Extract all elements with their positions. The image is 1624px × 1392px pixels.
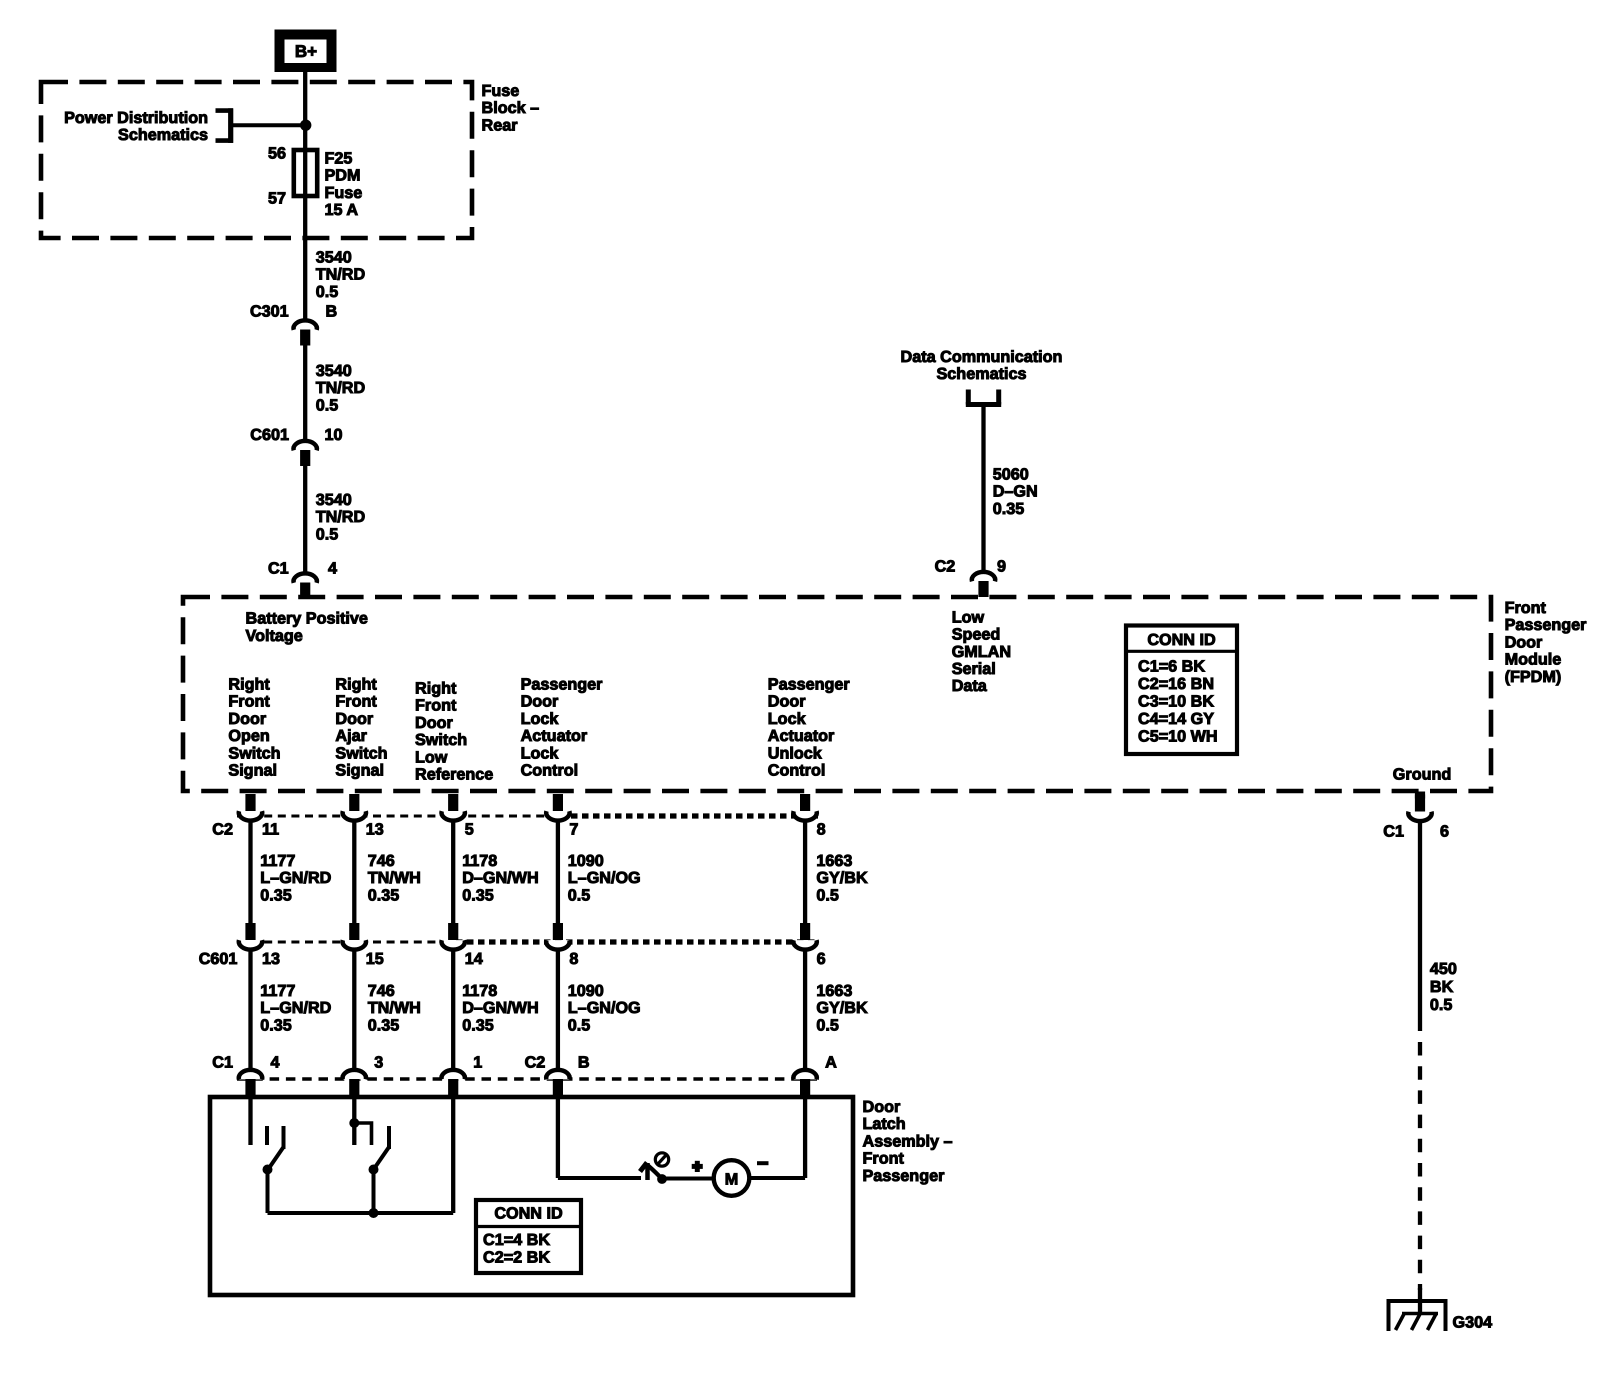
- svg-text:Door: Door: [521, 693, 559, 711]
- label Passenger Door Lock Actuator Lock Control: [521, 676, 604, 780]
- svg-text:746: 746: [368, 982, 395, 1000]
- power terminal B+: [275, 30, 336, 72]
- svg-text:Voltage: Voltage: [246, 627, 303, 645]
- label wire 1090 L-GN/OG upper: [568, 852, 641, 904]
- wire 1177 L-GN/RD upper segment (column 1): [248, 820, 252, 925]
- svg-text:C601: C601: [250, 426, 289, 444]
- rail junction: [369, 1209, 378, 1218]
- svg-text:C4=14 GY: C4=14 GY: [1138, 710, 1214, 728]
- connector C2 pin 9 (FPDM): [935, 557, 1006, 596]
- CONN ID table (FPDM): [1126, 626, 1237, 755]
- connector C601 pin 10: [250, 426, 342, 466]
- wire motor to unlock control: [750, 1176, 805, 1180]
- svg-text:Right: Right: [415, 680, 457, 698]
- svg-text:Lock: Lock: [768, 710, 807, 728]
- svg-text:Right: Right: [228, 676, 270, 694]
- connector row C2 dashed line: [237, 815, 818, 818]
- svg-text:56: 56: [268, 145, 286, 163]
- svg-text:Schematics: Schematics: [118, 126, 208, 144]
- svg-text:15 A: 15 A: [325, 201, 359, 219]
- svg-text:Passenger: Passenger: [768, 676, 851, 694]
- svg-text:C3=10 BK: C3=10 BK: [1138, 692, 1214, 710]
- svg-text:0.35: 0.35: [462, 886, 494, 904]
- wire into ground: [1418, 1288, 1422, 1313]
- Door Latch Assembly box: [210, 1097, 853, 1295]
- svg-text:C2: C2: [935, 557, 956, 575]
- svg-text:Signal: Signal: [228, 762, 277, 780]
- svg-text:B+: B+: [295, 42, 317, 61]
- Front Passenger Door Module (FPDM) box: [183, 597, 1491, 791]
- svg-text:Lock: Lock: [521, 710, 560, 728]
- svg-text:Rear: Rear: [482, 116, 519, 134]
- svg-text:Actuator: Actuator: [768, 727, 835, 745]
- svg-text:15: 15: [366, 950, 384, 968]
- svg-text:BK: BK: [1430, 978, 1454, 996]
- label wire 746 TN/WH upper: [368, 852, 421, 904]
- label Battery Positive Voltage: [246, 610, 368, 645]
- connector C2 label: [212, 820, 233, 838]
- wire C301 to C601: [303, 344, 307, 443]
- svg-text:0.5: 0.5: [568, 1016, 591, 1034]
- svg-text:0.5: 0.5: [816, 886, 839, 904]
- svg-text:14: 14: [465, 950, 483, 968]
- svg-text:C301: C301: [250, 303, 289, 321]
- door ajar switch pivot: [369, 1165, 378, 1174]
- svg-text:TN/WH: TN/WH: [368, 999, 421, 1017]
- svg-text:0.5: 0.5: [316, 396, 339, 414]
- svg-text:Front: Front: [228, 693, 270, 711]
- svg-text:5060: 5060: [993, 466, 1029, 484]
- door open switch contact: [282, 1126, 286, 1149]
- svg-text:5: 5: [465, 820, 474, 838]
- wire open switch to rail: [266, 1170, 270, 1214]
- svg-text:0.35: 0.35: [260, 1016, 292, 1034]
- svg-text:Speed: Speed: [952, 626, 1001, 644]
- svg-text:L–GN/OG: L–GN/OG: [568, 999, 641, 1017]
- svg-text:GMLAN: GMLAN: [952, 643, 1011, 661]
- svg-text:10: 10: [325, 426, 343, 444]
- svg-text:57: 57: [268, 189, 286, 207]
- junction on B+ feed: [301, 120, 311, 130]
- connector C601 pin 8 (column 4): [546, 924, 578, 969]
- connector row C601 dashed line: [237, 941, 818, 944]
- lock switch pivot: [658, 1175, 667, 1184]
- svg-text:Fuse: Fuse: [482, 82, 520, 100]
- svg-text:C2=16 BN: C2=16 BN: [1138, 675, 1214, 693]
- door ajar switch blade: [374, 1147, 390, 1170]
- lock actuator icon: [655, 1153, 668, 1166]
- Data Communication Schematics reference: [901, 348, 1063, 405]
- wire ajar switch to rail: [372, 1170, 376, 1214]
- svg-text:Power Distribution: Power Distribution: [64, 109, 208, 127]
- wire 1090 L-GN/OG lower segment (column 4): [556, 949, 560, 1072]
- connector C601 pin 15 (column 2): [343, 924, 384, 969]
- svg-text:Front: Front: [863, 1150, 905, 1168]
- label wire 1090 L-GN/OG lower: [568, 982, 641, 1034]
- wire unlock control column: [803, 1094, 807, 1178]
- label wire 3540 TN/RD 0.5 (segment 3): [316, 491, 366, 543]
- svg-text:0.5: 0.5: [1430, 996, 1453, 1014]
- door open switch pivot: [263, 1165, 272, 1174]
- connector C601 pin 13 (column 1): [239, 924, 280, 969]
- svg-text:0.5: 0.5: [316, 283, 339, 301]
- svg-text:3: 3: [374, 1054, 383, 1072]
- svg-text:1178: 1178: [462, 982, 497, 1000]
- svg-text:0.35: 0.35: [993, 500, 1025, 518]
- label wire 1663 GY/BK lower: [816, 982, 868, 1034]
- wire fuse to C301: [303, 196, 307, 322]
- label wire 1177 L-GN/RD lower: [260, 982, 331, 1034]
- svg-text:C2: C2: [212, 820, 233, 838]
- svg-text:Fuse: Fuse: [325, 184, 363, 202]
- label Right Front Door Ajar Switch Signal: [335, 676, 387, 780]
- wire into door open switch: [248, 1094, 252, 1145]
- svg-text:Switch: Switch: [415, 731, 467, 749]
- svg-text:1178: 1178: [462, 852, 497, 870]
- svg-text:0.5: 0.5: [568, 886, 591, 904]
- svg-text:Passenger: Passenger: [863, 1167, 946, 1185]
- connector latch pin 1 (column 3): [442, 1054, 483, 1095]
- svg-text:L–GN/RD: L–GN/RD: [260, 869, 331, 887]
- label wire 3540 TN/RD 0.5 (segment 1): [316, 249, 366, 301]
- svg-text:13: 13: [366, 820, 384, 838]
- svg-text:1177: 1177: [260, 982, 295, 1000]
- svg-text:Schematics: Schematics: [937, 365, 1027, 383]
- svg-text:F25: F25: [325, 150, 353, 168]
- wire 1663 GY/BK upper segment (column 5): [803, 820, 807, 925]
- svg-text:0.35: 0.35: [368, 1016, 400, 1034]
- connector C1 pin 6 (ground): [1383, 792, 1449, 841]
- connector C1 pin 4 (FPDM): [268, 560, 337, 599]
- svg-text:Assembly –: Assembly –: [863, 1132, 953, 1150]
- svg-text:GY/BK: GY/BK: [816, 869, 868, 887]
- connector latch pin B (column 4): [546, 1054, 589, 1095]
- svg-text:Door: Door: [768, 693, 806, 711]
- svg-text:CONN ID: CONN ID: [1147, 631, 1216, 649]
- svg-text:Switch: Switch: [335, 744, 387, 762]
- svg-text:TN/RD: TN/RD: [316, 508, 366, 526]
- svg-text:PDM: PDM: [325, 167, 361, 185]
- svg-text:Door: Door: [1505, 633, 1543, 651]
- wire 1090 L-GN/OG upper segment (column 4): [556, 820, 560, 925]
- label Right Front Door Open Switch Signal: [228, 676, 280, 780]
- svg-text:GY/BK: GY/BK: [816, 999, 868, 1017]
- svg-text:CONN ID: CONN ID: [494, 1205, 563, 1223]
- connector C2 pin 11 (column 1): [239, 795, 279, 839]
- label wire 450 BK 0.5: [1430, 960, 1457, 1014]
- door open switch blade: [268, 1147, 284, 1170]
- switch common rail: [268, 1211, 454, 1215]
- svg-text:Open: Open: [228, 727, 269, 745]
- svg-text:TN/RD: TN/RD: [316, 266, 366, 284]
- svg-text:Door: Door: [863, 1098, 901, 1116]
- wire from Power Distribution tap: [233, 123, 305, 127]
- wire GMLAN serial data: [981, 405, 985, 575]
- label wire 3540 TN/RD 0.5 (segment 2): [316, 362, 366, 414]
- svg-text:Latch: Latch: [863, 1115, 906, 1133]
- svg-text:Front: Front: [415, 697, 457, 715]
- label wire 1663 GY/BK upper: [816, 852, 868, 904]
- svg-text:3540: 3540: [316, 491, 352, 509]
- svg-text:0.35: 0.35: [368, 886, 400, 904]
- label Fuse Block - Rear: [482, 82, 540, 134]
- svg-text:6: 6: [817, 950, 826, 968]
- svg-text:Module: Module: [1505, 651, 1562, 669]
- connector C2 pin 8 (column 5): [793, 795, 825, 839]
- wire B+ feed into fuse block: [303, 72, 307, 199]
- wire C601 to C1: [303, 465, 307, 576]
- svg-text:Door: Door: [415, 714, 453, 732]
- svg-text:Data Communication: Data Communication: [901, 348, 1063, 366]
- svg-text:0.35: 0.35: [462, 1016, 494, 1034]
- connector C2 pin 13 (column 2): [343, 795, 384, 839]
- door ajar switch hook: [354, 1123, 371, 1145]
- connector C601 pin 14 (column 3): [442, 924, 483, 969]
- wire lock switch to motor: [663, 1177, 714, 1181]
- svg-text:M: M: [725, 1171, 738, 1189]
- Power Distribution Schematics reference: [64, 108, 233, 144]
- svg-text:8: 8: [569, 950, 578, 968]
- wire 746 TN/WH upper segment (column 2): [352, 820, 356, 925]
- svg-text:Door: Door: [228, 710, 266, 728]
- svg-text:13: 13: [262, 950, 280, 968]
- svg-text:C2=2 BK: C2=2 BK: [483, 1248, 550, 1266]
- lock switch blade: [640, 1163, 662, 1181]
- svg-text:Signal: Signal: [335, 762, 384, 780]
- label Door Latch Assembly - Front Passenger: [863, 1098, 953, 1185]
- svg-text:C1: C1: [212, 1054, 233, 1072]
- door ajar switch tap junction: [350, 1119, 359, 1128]
- svg-text:Reference: Reference: [415, 766, 493, 784]
- connector C2 latch label: [525, 1054, 546, 1072]
- connector C601 label: [199, 950, 238, 968]
- connector C601 pin 6 (column 5): [793, 924, 825, 969]
- svg-text:D–GN/WH: D–GN/WH: [462, 869, 538, 887]
- svg-text:4: 4: [328, 560, 337, 578]
- svg-text:Front: Front: [1505, 599, 1547, 617]
- svg-text:Control: Control: [521, 762, 579, 780]
- svg-text:C601: C601: [199, 950, 238, 968]
- svg-text:Passenger: Passenger: [1505, 616, 1588, 634]
- svg-text:Control: Control: [768, 762, 826, 780]
- wire 450 BK upper segment: [1418, 820, 1422, 1031]
- svg-text:Right: Right: [335, 676, 377, 694]
- svg-text:C1=4 BK: C1=4 BK: [483, 1231, 550, 1249]
- label fuse F25 PDM Fuse 15 A: [325, 150, 363, 220]
- connector C2 pin 7 (column 4): [546, 795, 578, 839]
- connector C2 pin 5 (column 3): [442, 795, 474, 839]
- svg-text:0.5: 0.5: [816, 1016, 839, 1034]
- svg-text:1090: 1090: [568, 982, 604, 1000]
- svg-text:8: 8: [817, 820, 826, 838]
- svg-text:Switch: Switch: [228, 744, 280, 762]
- svg-text:Front: Front: [335, 693, 377, 711]
- label Right Front Door Switch Low Reference: [415, 680, 493, 784]
- svg-text:Lock: Lock: [521, 744, 560, 762]
- wire into door ajar switch: [352, 1094, 356, 1145]
- svg-text:11: 11: [262, 820, 279, 838]
- svg-text:0.35: 0.35: [260, 886, 292, 904]
- label wire 746 TN/WH lower: [368, 982, 421, 1034]
- svg-text:1663: 1663: [816, 852, 852, 870]
- svg-text:450: 450: [1430, 960, 1457, 978]
- connector latch pin A (column 5): [793, 1054, 837, 1095]
- svg-text:Low: Low: [952, 608, 985, 626]
- svg-text:746: 746: [368, 852, 395, 870]
- wire 746 TN/WH lower segment (column 2): [352, 949, 356, 1072]
- connector row C1/C2 latch dashed line: [237, 1077, 818, 1080]
- label wire 1178 D-GN/WH lower: [462, 982, 538, 1034]
- svg-text:Data: Data: [952, 677, 988, 695]
- svg-text:Unlock: Unlock: [768, 744, 823, 762]
- svg-text:1090: 1090: [568, 852, 604, 870]
- svg-text:3540: 3540: [316, 362, 352, 380]
- svg-text:B: B: [578, 1054, 590, 1072]
- svg-text:Passenger: Passenger: [521, 676, 604, 694]
- svg-text:Door: Door: [335, 710, 373, 728]
- motor negative sign: [757, 1161, 769, 1165]
- label wire 1178 D-GN/WH upper: [462, 852, 538, 904]
- label Ground: [1393, 766, 1451, 784]
- svg-text:1: 1: [473, 1054, 482, 1072]
- connector C301 pin B: [250, 303, 337, 346]
- svg-text:D–GN/WH: D–GN/WH: [462, 999, 538, 1017]
- svg-text:C1=6 BK: C1=6 BK: [1138, 658, 1205, 676]
- wire lock control into latch: [556, 1094, 560, 1178]
- label wire 1177 L-GN/RD upper: [260, 852, 331, 904]
- door open switch fixed stub: [265, 1126, 269, 1145]
- svg-text:3540: 3540: [316, 249, 352, 267]
- wire 1178 D-GN/WH upper segment (column 3): [451, 820, 455, 925]
- connector latch pin 4 (column 1): [239, 1054, 280, 1095]
- svg-text:B: B: [326, 303, 338, 321]
- svg-text:(FPDM): (FPDM): [1505, 668, 1562, 686]
- svg-text:Ajar: Ajar: [335, 727, 367, 745]
- connector latch pin 3 (column 2): [343, 1054, 384, 1095]
- svg-text:6: 6: [1440, 823, 1449, 841]
- svg-text:TN/RD: TN/RD: [316, 379, 366, 397]
- svg-text:Block –: Block –: [482, 99, 540, 117]
- svg-text:1663: 1663: [816, 982, 852, 1000]
- svg-text:A: A: [825, 1054, 837, 1072]
- label Front Passenger Door Module (FPDM): [1505, 599, 1588, 686]
- svg-text:Actuator: Actuator: [521, 727, 588, 745]
- connector C1 latch label: [212, 1054, 233, 1072]
- door ajar switch contact: [387, 1126, 391, 1149]
- svg-text:Serial: Serial: [952, 660, 996, 678]
- svg-text:9: 9: [997, 557, 1006, 575]
- motor M: [714, 1160, 750, 1196]
- svg-text:G304: G304: [1453, 1314, 1493, 1332]
- wire 1663 GY/BK lower segment (column 5): [803, 949, 807, 1072]
- svg-text:7: 7: [569, 820, 578, 838]
- label Low Speed GMLAN Serial Data: [952, 608, 1011, 695]
- wire 1178 D-GN/WH lower segment (column 3): [451, 949, 455, 1072]
- svg-text:1177: 1177: [260, 852, 295, 870]
- ground G304: [1389, 1301, 1493, 1332]
- svg-text:0.5: 0.5: [316, 525, 339, 543]
- CONN ID table (latch): [476, 1200, 581, 1273]
- svg-text:L–GN/OG: L–GN/OG: [568, 869, 641, 887]
- svg-text:C1: C1: [1383, 823, 1404, 841]
- Fuse Block - Rear box: [41, 82, 472, 238]
- svg-text:C2: C2: [525, 1054, 546, 1072]
- svg-text:C5=10 WH: C5=10 WH: [1138, 727, 1218, 745]
- wire 1177 L-GN/RD lower segment (column 1): [248, 949, 252, 1072]
- fuse F25 PDM 15A: [268, 145, 317, 208]
- label Passenger Door Lock Actuator Unlock Control: [768, 676, 851, 780]
- svg-text:D–GN: D–GN: [993, 483, 1038, 501]
- wire low reference column: [451, 1094, 455, 1213]
- svg-text:4: 4: [271, 1054, 280, 1072]
- wire 450 BK dashed segment: [1418, 1042, 1422, 1290]
- label wire 5060 D-GN 0.35: [993, 466, 1038, 518]
- svg-text:Battery Positive: Battery Positive: [246, 610, 368, 628]
- svg-text:Ground: Ground: [1393, 766, 1451, 784]
- motor positive sign: [692, 1161, 703, 1172]
- svg-text:C1: C1: [268, 560, 289, 578]
- svg-text:Low: Low: [415, 748, 448, 766]
- wire lock control to lock switch: [558, 1176, 641, 1180]
- svg-text:L–GN/RD: L–GN/RD: [260, 999, 331, 1017]
- svg-text:TN/WH: TN/WH: [368, 869, 421, 887]
